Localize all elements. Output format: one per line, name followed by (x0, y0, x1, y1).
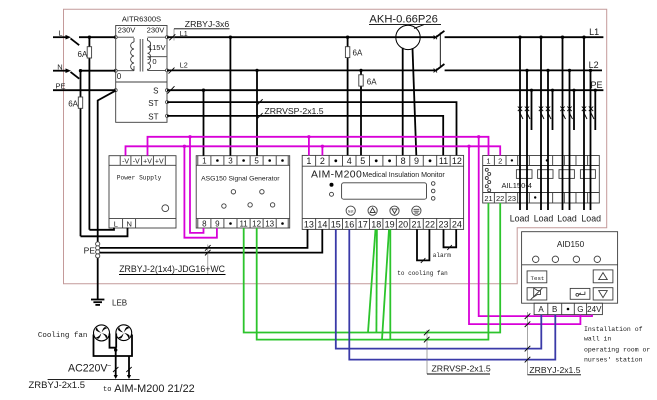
svg-text:6A: 6A (78, 50, 88, 59)
svg-text:19: 19 (385, 219, 395, 229)
svg-text:12: 12 (452, 156, 462, 166)
wire rail A to AID 24V (477, 135, 592, 316)
green wire ASG 11 rail to AIL 22 (244, 203, 501, 333)
svg-text:B: B (552, 305, 557, 314)
wire load2 L (539, 36, 542, 211)
fuse F4 6A on L2 to AIM terminal 5 (359, 69, 363, 156)
svg-text:-V: -V (122, 158, 129, 165)
svg-text:AIM-M200: AIM-M200 (311, 169, 362, 180)
remote indicator U6 AID150 (522, 232, 618, 315)
svg-text:ZRBYJ-2(1x4)-JDG16+WC: ZRBYJ-2(1x4)-JDG16+WC (119, 264, 225, 274)
svg-text:PE: PE (591, 80, 603, 90)
wire PE stub load4 (594, 89, 597, 130)
svg-text:ZRRVSP-2x1.5: ZRRVSP-2x1.5 (432, 364, 491, 374)
svg-text:6A: 6A (68, 100, 78, 109)
svg-text:15: 15 (331, 219, 341, 229)
transformer T1 AITR6300S (114, 26, 168, 123)
svg-text:to: to (103, 386, 111, 394)
wire load1 L (518, 36, 521, 211)
svg-text:2: 2 (498, 157, 502, 166)
wire N supply line (53, 68, 116, 78)
svg-text:23: 23 (508, 194, 516, 203)
node PE busbar junctions (96, 242, 100, 258)
wire PE stub load1 (530, 89, 533, 130)
svg-text:13: 13 (265, 219, 274, 228)
breaker Q3 load2 (539, 107, 551, 120)
AID mute button (527, 288, 547, 300)
svg-text:wall in: wall in (584, 335, 611, 342)
cable marker ZRRVSP bottom leader (424, 330, 430, 374)
wire PE bus to AIM terminal 14 (100, 229, 323, 252)
svg-text:L: L (58, 28, 62, 37)
svg-text:18: 18 (371, 219, 381, 229)
svg-text:ZRBYJ-2x1.5: ZRBYJ-2x1.5 (529, 365, 580, 375)
fuse F1 6A on L branch (87, 36, 91, 230)
wire PE line left (53, 89, 116, 91)
svg-text:ZRBYJ-2x1.5: ZRBYJ-2x1.5 (29, 380, 86, 391)
svg-text:230V: 230V (118, 25, 137, 34)
svg-text:9: 9 (215, 219, 220, 228)
svg-text:2: 2 (320, 156, 325, 166)
wire load4 N (589, 69, 592, 210)
label AKH-0.66P26 (369, 14, 441, 29)
label ZRBYJ-2(1x4)-JDG16+WC (119, 264, 226, 275)
AID down button (593, 288, 613, 300)
svg-text:N: N (126, 219, 131, 228)
svg-text:operating room or: operating room or (584, 346, 650, 353)
svg-text:13: 13 (304, 219, 314, 229)
insulation monitor U4 AIM-M200 (302, 155, 463, 229)
svg-text:L: L (114, 219, 118, 228)
svg-text:PE: PE (55, 81, 65, 90)
svg-text:5: 5 (360, 156, 365, 166)
svg-text:16: 16 (344, 219, 354, 229)
svg-text:L1: L1 (180, 29, 188, 38)
wire load4 L (582, 36, 585, 211)
wire cooling fan circuit (94, 334, 133, 357)
wire PE to ground bus (diagonal) (98, 91, 116, 299)
AID terminal strip A B G 24V (534, 303, 602, 314)
wire AIM 21/22 stub to cooling fan (417, 229, 429, 263)
wire S line to ASG terminal 1 (202, 89, 205, 156)
load branch circuits with breakers (518, 36, 597, 211)
svg-text:test: test (348, 209, 354, 213)
svg-text:S: S (153, 87, 158, 96)
svg-text:17: 17 (358, 219, 368, 229)
label Installation note (584, 326, 650, 364)
wire PS L feed (89, 228, 114, 230)
svg-text:AIM-M200 21/22: AIM-M200 21/22 (114, 383, 195, 395)
svg-text:AKH-0.66P26: AKH-0.66P26 (369, 14, 437, 26)
wire L2 distribution line (167, 69, 602, 71)
breaker Q1 two-pole on L1/L2 (434, 31, 445, 73)
svg-text:24: 24 (452, 219, 462, 229)
green wire AIM 19 taps (382, 229, 390, 339)
svg-text:Load: Load (510, 214, 530, 224)
svg-text:AID150: AID150 (557, 240, 585, 249)
cable marker ZRBYJ-3x6 leader (168, 29, 176, 94)
svg-text:11: 11 (239, 219, 248, 228)
wire ST1 to AIM terminal 12 (167, 102, 457, 155)
svg-text:~: ~ (107, 363, 111, 370)
wire load3 L (561, 36, 564, 211)
svg-text:Test: Test (531, 275, 545, 282)
AID up button (593, 270, 613, 283)
svg-text:0: 0 (152, 57, 156, 66)
breaker Q4 load3 (560, 107, 572, 120)
wire PE stub load2 (551, 89, 554, 130)
enclosure border (cabinet outline, pink) (64, 9, 607, 284)
svg-text:1: 1 (306, 156, 311, 166)
svg-text:12: 12 (252, 219, 261, 228)
svg-text:Load: Load (534, 214, 554, 224)
AIM buttons (346, 206, 355, 215)
svg-text:ZRRVSP-2x1.5: ZRRVSP-2x1.5 (264, 106, 323, 116)
svg-text:+V: +V (155, 158, 164, 165)
signal generator U3 ASG150 (196, 156, 290, 229)
wire PE stub load3 (572, 89, 575, 130)
svg-text:4: 4 (347, 156, 352, 166)
svg-text:23: 23 (438, 219, 448, 229)
svg-text:20: 20 (398, 219, 408, 229)
svg-text:G: G (577, 305, 583, 314)
svg-text:14: 14 (317, 219, 327, 229)
transformer primary coil 230V (117, 37, 135, 70)
wire L1 distribution line (167, 36, 603, 38)
wire rail B to AIM terminal 2 (321, 145, 324, 156)
fuse F3 6A on L1 to AIM terminal 4 (345, 36, 349, 156)
svg-text:21: 21 (411, 219, 421, 229)
wire load1 N (525, 69, 528, 210)
ground LEB (91, 300, 104, 305)
svg-text:5: 5 (254, 157, 259, 166)
svg-text:22: 22 (425, 219, 435, 229)
wire S/PE line right (167, 89, 603, 91)
label ZRRVSP-2x1.5 bottom (427, 364, 491, 375)
AID Test button (527, 271, 547, 283)
wire rail B to AID G (467, 145, 580, 325)
blue wire AIM 15 to AID A (336, 229, 542, 348)
wire L supply line (53, 35, 116, 45)
label ZRBYJ-2x1.5 right (528, 365, 582, 375)
wire load2 N (546, 69, 549, 210)
blue wire AIM 16 to AID B (349, 229, 555, 359)
svg-text:1: 1 (486, 157, 490, 166)
wire fan cable cores to AC220V (48, 356, 140, 379)
wire PE bus to AIM terminal 13 (100, 229, 308, 248)
wire rail A to ASG terminal 8 (188, 135, 203, 233)
load current monitor U5 AIL150-4 (483, 156, 600, 204)
wire AIM 23/24 alarm stub (444, 229, 457, 250)
svg-text:Installation of: Installation of (584, 326, 643, 333)
cable marker ZRRVSP top leader (257, 99, 263, 119)
power supply U2 (109, 156, 176, 229)
svg-text:Medical Insulation Monitor: Medical Insulation Monitor (362, 171, 445, 179)
svg-text:1: 1 (202, 157, 207, 166)
svg-text:L2: L2 (589, 60, 599, 70)
svg-text:A: A (538, 305, 544, 314)
wire L1 to ASG terminal 3 (229, 36, 232, 156)
AIL current transformer windows (516, 170, 532, 179)
magenta rail B : PS -V feed (126, 146, 501, 155)
svg-text:L2: L2 (180, 61, 188, 70)
transformer secondary coil 115V/0 (148, 37, 167, 70)
current transformer AKH-0.66P26 (396, 25, 420, 49)
wire PS N feed (81, 228, 128, 237)
svg-text:Cooling fan: Cooling fan (38, 332, 88, 340)
wire AKH secondary to AIM terminal 9 (413, 48, 417, 155)
svg-text:-V: -V (133, 158, 140, 165)
wire rail A to AIM terminal 1 (307, 135, 310, 155)
svg-text:Power Supply: Power Supply (117, 174, 162, 181)
breaker Q2 load1 (518, 107, 530, 120)
label Load x4 (510, 214, 601, 224)
svg-text:AC220V: AC220V (68, 363, 108, 375)
svg-text:24V: 24V (587, 305, 602, 314)
svg-text:ST: ST (148, 112, 158, 121)
transformer terminal pins (114, 36, 117, 39)
magenta rail A : PS +V feed (148, 137, 489, 156)
svg-text:alarm: alarm (433, 252, 451, 259)
wire AKH secondary to AIM terminal 8 (402, 48, 404, 156)
svg-text:AITR6300S: AITR6300S (122, 14, 161, 23)
breaker Q5 load4 (582, 107, 594, 120)
wire L2 to ASG terminal 5 (255, 69, 258, 156)
cooling fan M1 M2 (94, 325, 132, 341)
green wire ASG 12 rail to AIL 21 (257, 203, 489, 340)
svg-text:8: 8 (202, 219, 207, 228)
svg-text:8: 8 (401, 156, 406, 166)
label to AIM-M200 21/22 (103, 383, 195, 395)
svg-text:to cooling fan: to cooling fan (397, 270, 448, 277)
svg-text:9: 9 (414, 156, 419, 166)
transformer core (139, 39, 141, 72)
svg-text:N: N (57, 62, 62, 71)
svg-text:+V: +V (143, 158, 152, 165)
fuse F2 6A on N branch (78, 69, 82, 236)
svg-text:PE: PE (84, 245, 96, 255)
cable marker ZRBYJ-2(1x4) leader (205, 245, 211, 275)
wire ST2 to AIM terminal 11 (167, 116, 443, 155)
svg-text:Load: Load (557, 214, 577, 224)
wire load3 N (568, 69, 571, 210)
svg-text:115V: 115V (148, 43, 166, 52)
svg-text:ASG150 Signal Generator: ASG150 Signal Generator (201, 175, 280, 182)
label ZRBYJ-3x6 cable (174, 19, 230, 29)
svg-text:L1: L1 (589, 27, 599, 37)
green wire AIM 18 taps (368, 229, 377, 332)
svg-text:6A: 6A (367, 78, 377, 87)
svg-text:230V: 230V (147, 25, 166, 34)
svg-text:ST: ST (148, 99, 158, 108)
AID enter button (570, 288, 590, 299)
svg-text:ZRBYJ-3x6: ZRBYJ-3x6 (185, 19, 230, 29)
svg-text:3: 3 (228, 157, 233, 166)
svg-text:11: 11 (439, 156, 448, 166)
wire rail B to ASG terminal 9 (183, 145, 217, 238)
svg-text:0: 0 (117, 72, 122, 81)
svg-text:Load: Load (581, 214, 601, 224)
svg-text:6A: 6A (353, 49, 363, 58)
svg-text:LEB: LEB (112, 299, 127, 308)
cable marker ZRBYJ right leader (525, 312, 531, 375)
svg-text:22: 22 (496, 194, 504, 203)
svg-text:21: 21 (484, 194, 492, 203)
svg-text:nurses' station: nurses' station (584, 356, 643, 363)
